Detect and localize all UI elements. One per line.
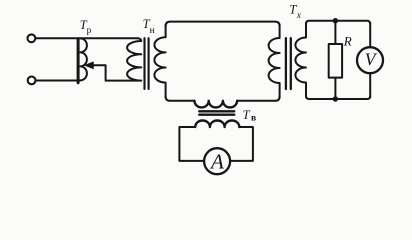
terminal input top: [28, 34, 36, 42]
voltmeter branch wires: [369, 23, 371, 97]
junction node top: [333, 18, 338, 23]
svg-text:A: A: [209, 149, 224, 173]
transformer T_n secondary winding (left side of heavy loop): [154, 25, 165, 98]
transformer T_x secondary winding: [295, 23, 306, 97]
variac wiper arrow: [92, 65, 138, 80]
resistor R leads: [334, 21, 336, 99]
transformer T_v core: [199, 110, 234, 112]
transformer T_x primary winding (right side of heavy loop): [269, 25, 280, 98]
transformer T_n primary winding: [127, 38, 141, 80]
wire heavy loop top edge: [166, 22, 280, 26]
transformer T_p winding: [80, 38, 87, 80]
transformer T_p core bar: [77, 39, 80, 83]
voltmeter V: [357, 47, 383, 73]
svg-text:R: R: [343, 33, 352, 48]
resistor R body: [329, 44, 342, 78]
wire heavy loop bottom edge left segment: [166, 97, 195, 101]
svg-text:х: х: [296, 11, 302, 21]
svg-text:р: р: [87, 26, 92, 36]
terminal input bottom: [28, 77, 36, 85]
wire measuring circuit bottom edge: [306, 96, 370, 99]
transformer T_v primary winding (in heavy loop): [195, 101, 238, 108]
junction node bottom: [333, 96, 338, 101]
svg-text:н: н: [150, 26, 155, 36]
transformer T_v secondary winding: [195, 120, 239, 127]
wire measuring circuit top edge: [306, 21, 370, 24]
svg-text:в: в: [251, 114, 256, 124]
wire bottom rail from terminal: [36, 80, 81, 82]
wire heavy loop bottom edge right segment: [237, 97, 280, 101]
transformer T_x core: [285, 38, 287, 89]
wire top rail: [36, 37, 138, 39]
wire ammeter loop right: [231, 127, 253, 161]
ammeter A: [204, 148, 230, 174]
transformer T_n core: [143, 38, 145, 89]
svg-text:T: T: [243, 108, 251, 122]
wire ammeter loop left: [179, 127, 203, 161]
